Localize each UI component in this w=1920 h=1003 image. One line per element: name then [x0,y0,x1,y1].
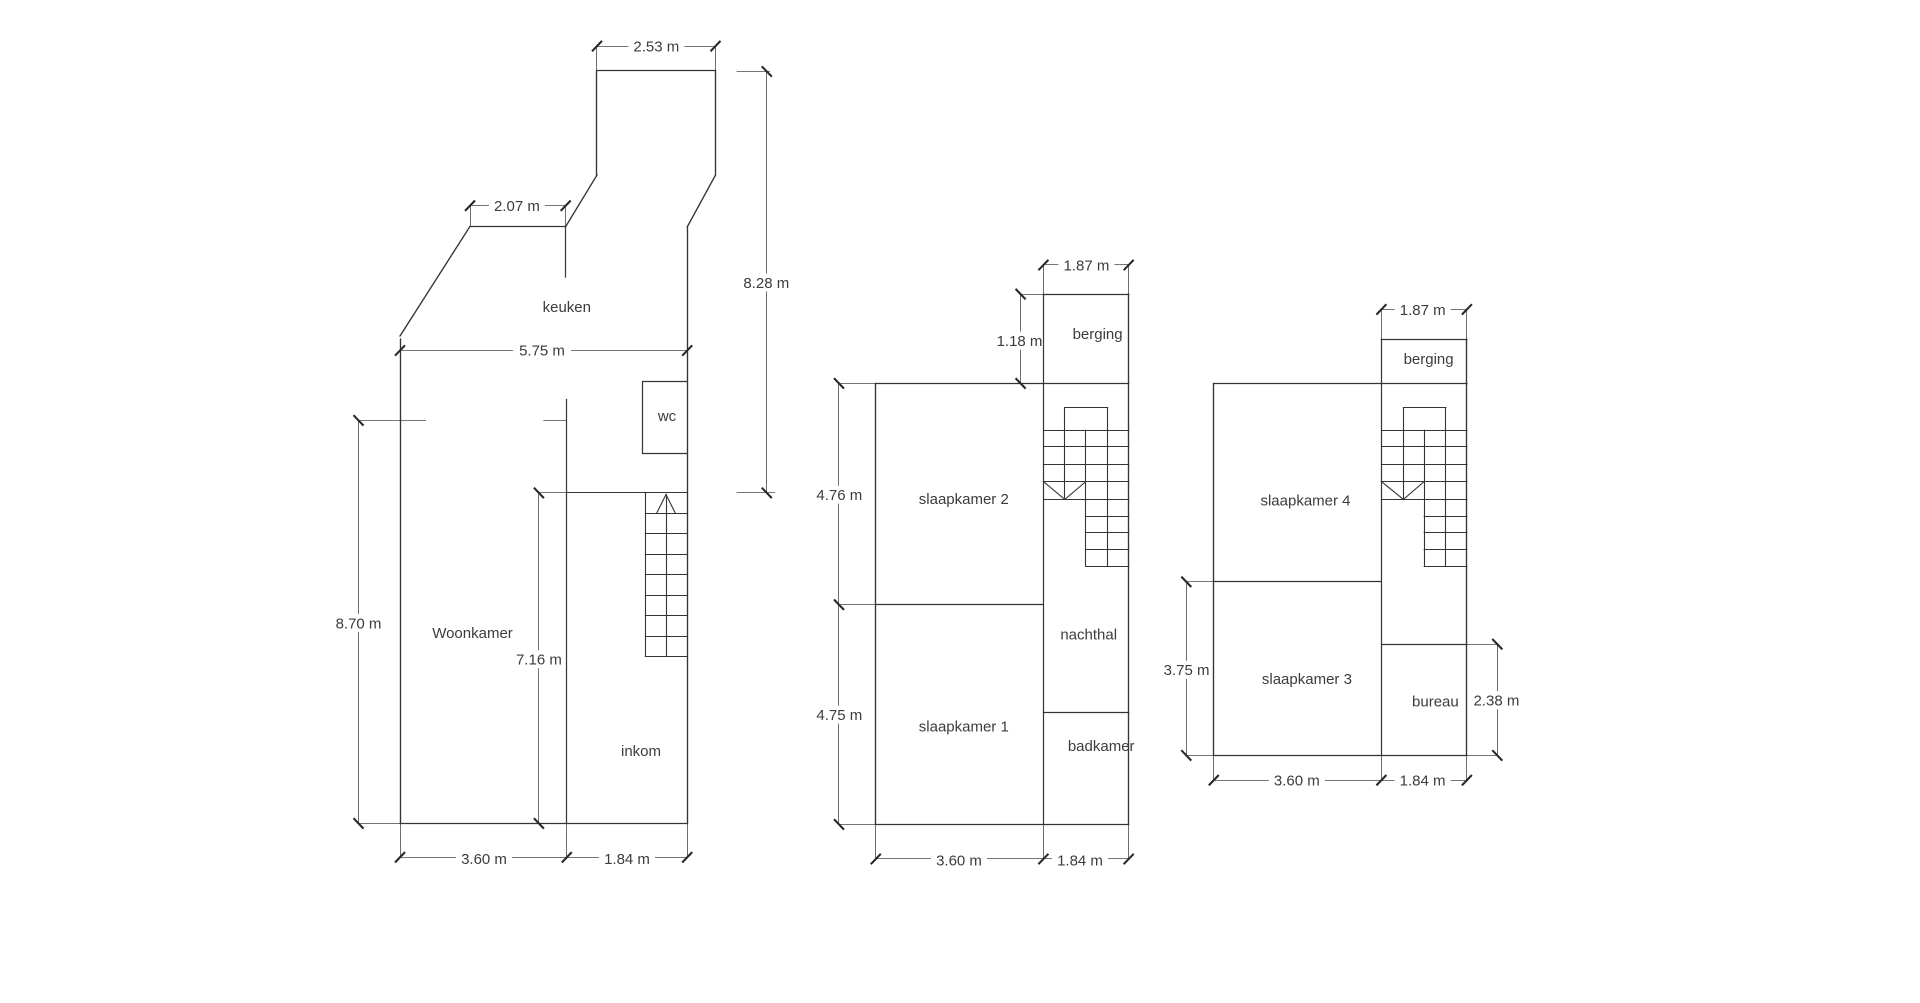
svg-text:Woonkamer: Woonkamer [432,625,513,642]
svg-text:1.87 m: 1.87 m [1400,302,1446,319]
svg-text:keuken: keuken [543,299,591,316]
svg-text:1.84 m: 1.84 m [1057,853,1103,870]
svg-text:5.75 m: 5.75 m [519,342,565,359]
svg-text:1.87 m: 1.87 m [1063,257,1109,274]
svg-text:8.28 m: 8.28 m [743,275,789,292]
svg-text:bureau: bureau [1412,694,1459,711]
svg-text:3.60 m: 3.60 m [936,853,982,870]
svg-text:wc: wc [657,408,677,425]
svg-text:1.84 m: 1.84 m [1400,773,1446,790]
svg-text:2.07 m: 2.07 m [494,198,540,215]
svg-text:4.76 m: 4.76 m [816,487,862,504]
svg-text:2.53 m: 2.53 m [633,39,679,56]
svg-text:slaapkamer 3: slaapkamer 3 [1262,671,1352,688]
svg-text:slaapkamer 4: slaapkamer 4 [1260,492,1350,509]
svg-text:7.16 m: 7.16 m [516,652,562,669]
svg-text:berging: berging [1404,351,1454,368]
svg-text:4.75 m: 4.75 m [816,707,862,724]
svg-text:slaapkamer 2: slaapkamer 2 [919,491,1009,508]
svg-text:2.38 m: 2.38 m [1473,693,1519,710]
svg-text:nachthal: nachthal [1060,627,1117,644]
svg-text:1.18 m: 1.18 m [997,333,1043,350]
svg-text:8.70 m: 8.70 m [336,615,382,632]
svg-text:inkom: inkom [621,743,661,760]
svg-text:berging: berging [1073,326,1123,343]
svg-text:badkamer: badkamer [1068,738,1135,755]
svg-text:3.60 m: 3.60 m [1274,773,1320,790]
svg-text:slaapkamer 1: slaapkamer 1 [919,718,1009,735]
svg-text:3.60 m: 3.60 m [461,851,507,868]
svg-text:1.84 m: 1.84 m [604,851,650,868]
svg-text:3.75 m: 3.75 m [1164,662,1210,679]
